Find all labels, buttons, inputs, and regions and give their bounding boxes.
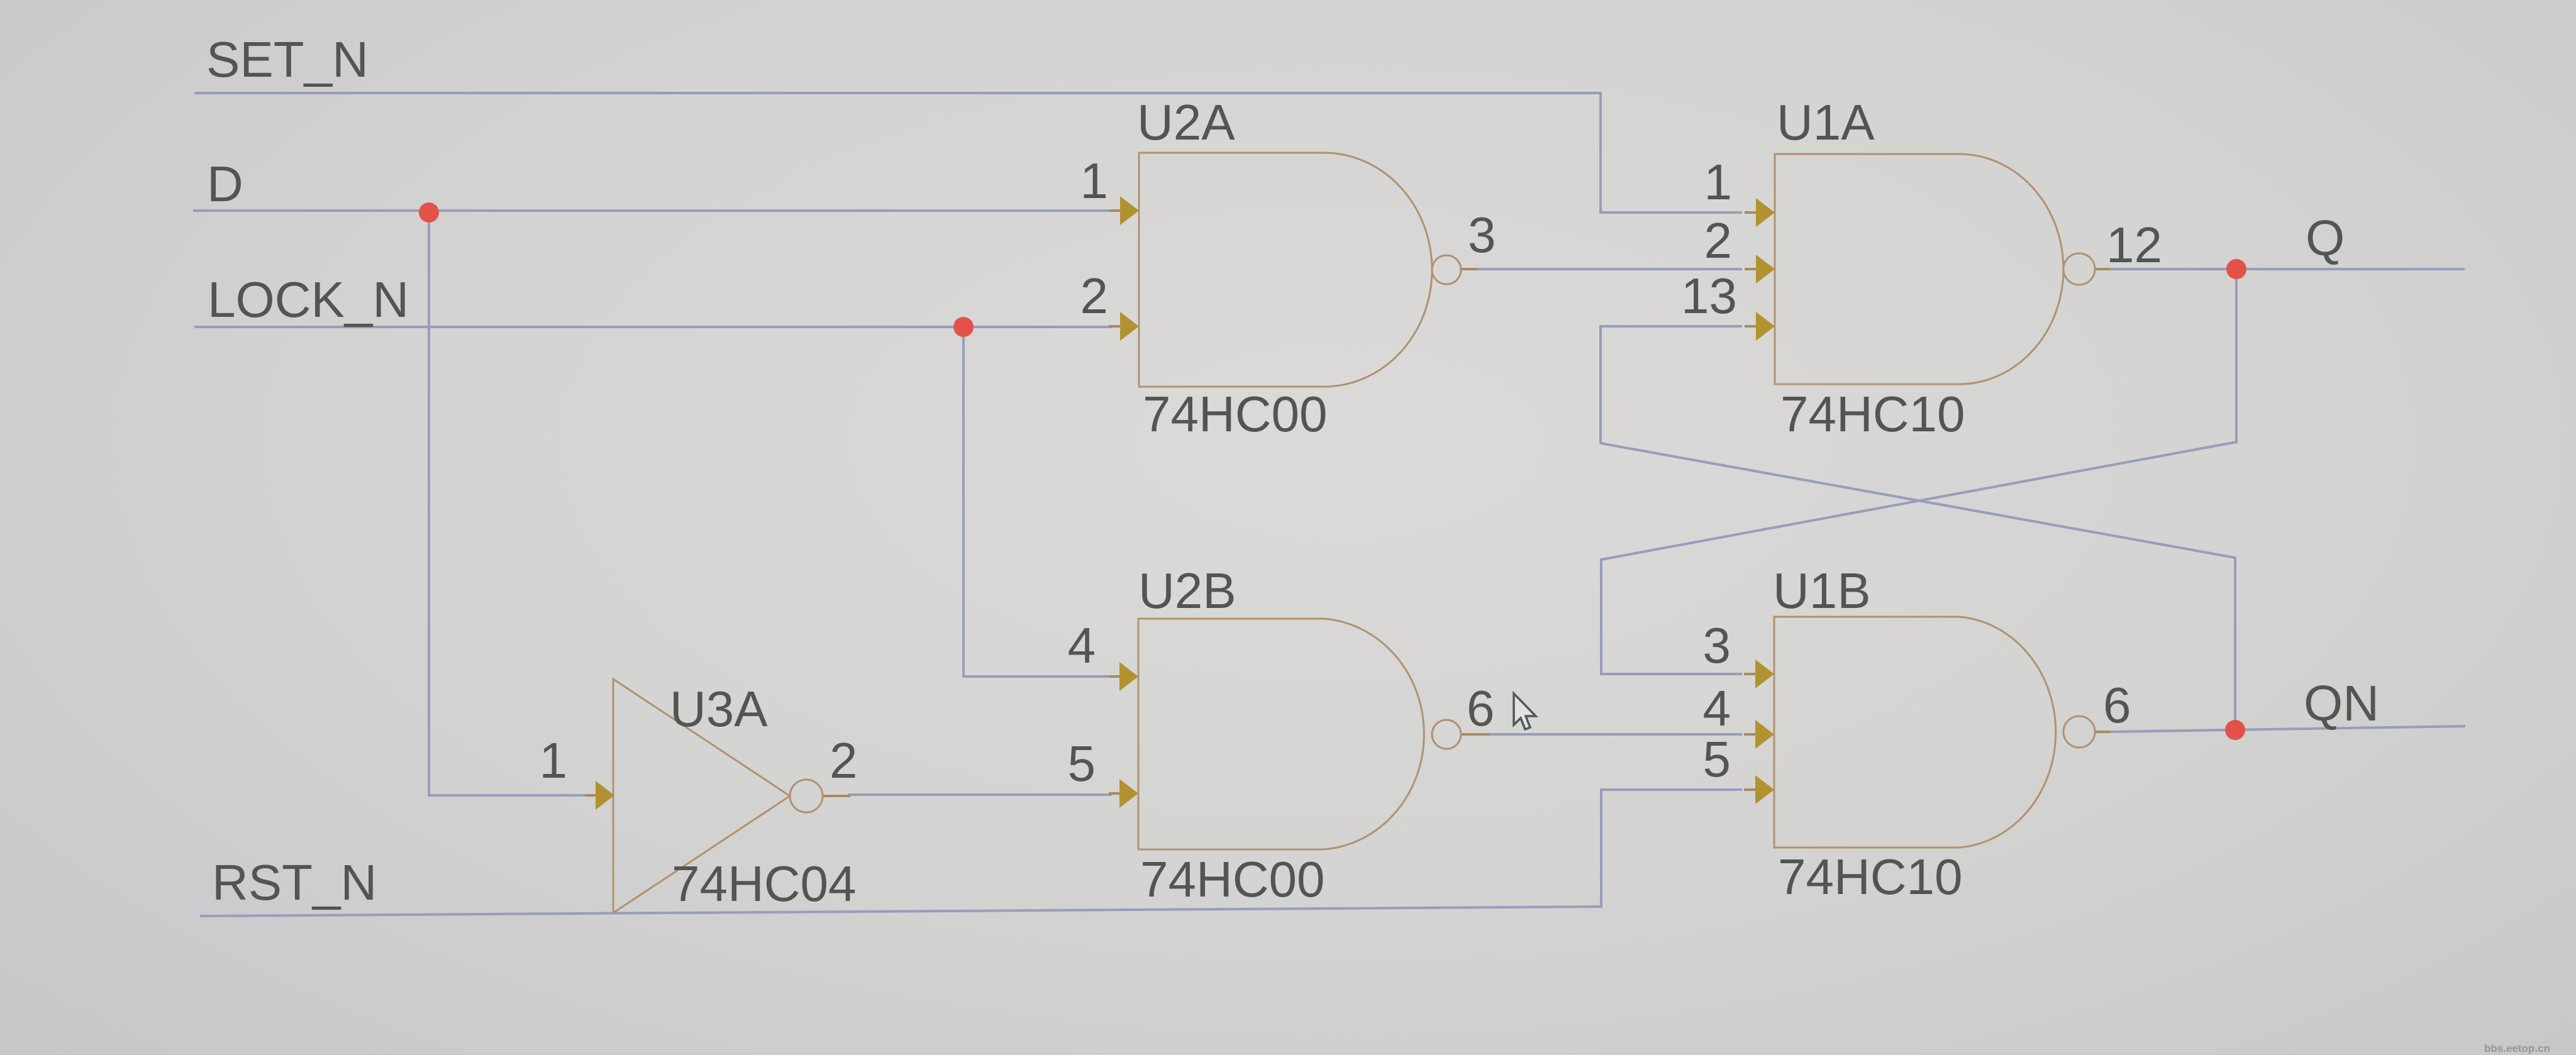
svg-text:5: 5 <box>1703 731 1731 787</box>
svg-text:1: 1 <box>540 732 568 788</box>
svg-text:4: 4 <box>1068 617 1096 673</box>
junction LOCK_N net <box>953 317 974 337</box>
pin arrow U1B.4 <box>1755 720 1774 749</box>
pin arrow U1A.1 <box>1756 198 1775 227</box>
svg-text:74HC10: 74HC10 <box>1778 849 1963 905</box>
output bubble U2A <box>1432 255 1461 284</box>
wire U2B output to U1B pin4 <box>1487 733 1742 736</box>
svg-text:3: 3 <box>1468 207 1496 263</box>
svg-text:74HC00: 74HC00 <box>1140 851 1325 907</box>
svg-text:74HC10: 74HC10 <box>1780 386 1965 442</box>
nand gate U2A 74HC00 <box>1139 153 1432 387</box>
pin arrow U3A.1 <box>596 781 614 810</box>
wire QN feedback to U1A pin13 <box>1601 326 2235 731</box>
svg-text:4: 4 <box>1703 680 1731 736</box>
svg-text:5: 5 <box>1068 736 1096 792</box>
wire D vertical to U3A input <box>429 211 588 795</box>
output bubble U3A <box>790 780 823 812</box>
svg-text:RST_N: RST_N <box>212 854 377 910</box>
junction QN net <box>2225 720 2245 740</box>
svg-text:Q: Q <box>2306 210 2345 266</box>
svg-text:D: D <box>207 156 243 212</box>
svg-text:1: 1 <box>1080 153 1109 209</box>
svg-text:74HC04: 74HC04 <box>672 856 857 912</box>
output bubble U1A <box>2063 253 2095 285</box>
mouse cursor <box>1514 693 1536 729</box>
svg-text:3: 3 <box>1703 617 1731 673</box>
junction Q net <box>2226 259 2246 279</box>
svg-text:SET_N: SET_N <box>206 31 369 87</box>
svg-text:U1A: U1A <box>1777 94 1875 150</box>
svg-text:U1B: U1B <box>1773 563 1871 619</box>
pin stubs (symbol colored) <box>585 211 2111 796</box>
input pin arrows <box>596 196 1775 810</box>
wire LOCK_N vertical to U2B pin4 <box>963 327 1112 677</box>
svg-text:2: 2 <box>830 732 858 788</box>
svg-text:U2A: U2A <box>1137 94 1235 150</box>
wire Q net <box>2108 268 2465 270</box>
pin arrow U2B.5 <box>1119 779 1138 808</box>
svg-text:2: 2 <box>1704 213 1733 268</box>
nand gate U1B 74HC10 <box>1774 617 2056 848</box>
inverter U3A 74HC04 <box>613 679 790 913</box>
svg-text:1: 1 <box>1704 154 1733 210</box>
svg-text:LOCK_N: LOCK_N <box>208 272 409 328</box>
wire D net <box>193 209 1112 212</box>
junction D net <box>419 202 439 223</box>
svg-text:74HC00: 74HC00 <box>1143 386 1328 442</box>
pin arrow U1B.3 <box>1755 660 1774 688</box>
wire QN net <box>2108 726 2465 732</box>
svg-text:U2B: U2B <box>1138 563 1236 619</box>
wire SET_N net <box>194 93 1742 213</box>
wire Q feedback to U1B pin3 <box>1601 269 2236 674</box>
svg-text:6: 6 <box>1467 680 1495 736</box>
wire RST_N net to U1B pin5 <box>200 790 1742 916</box>
pin arrow U2A.1 <box>1120 196 1139 225</box>
svg-text:U3A: U3A <box>670 681 768 737</box>
svg-text:2: 2 <box>1080 268 1109 324</box>
wire U2A output to U1A pin2 <box>1475 268 1742 270</box>
nand gate U1A 74HC10 <box>1775 154 2063 384</box>
pin arrow U1A.2 <box>1756 255 1775 284</box>
svg-text:bbs.eetop.cn: bbs.eetop.cn <box>2484 1042 2550 1054</box>
pin arrow U1B.5 <box>1755 775 1774 804</box>
nand gate U2B 74HC00 <box>1138 619 1424 849</box>
wire U3A output to U2B pin5 <box>848 793 1112 796</box>
svg-text:6: 6 <box>2103 677 2131 733</box>
pin arrow U2A.2 <box>1120 312 1139 341</box>
wire LOCK_N net <box>194 326 1112 328</box>
pin arrow U1A.13 <box>1756 312 1775 341</box>
output bubble U2B <box>1432 720 1461 749</box>
pin arrow U2B.4 <box>1119 662 1138 691</box>
output bubble U1B <box>2063 716 2095 748</box>
svg-text:12: 12 <box>2106 217 2162 273</box>
svg-text:13: 13 <box>1681 268 1737 324</box>
svg-text:QN: QN <box>2304 675 2379 731</box>
